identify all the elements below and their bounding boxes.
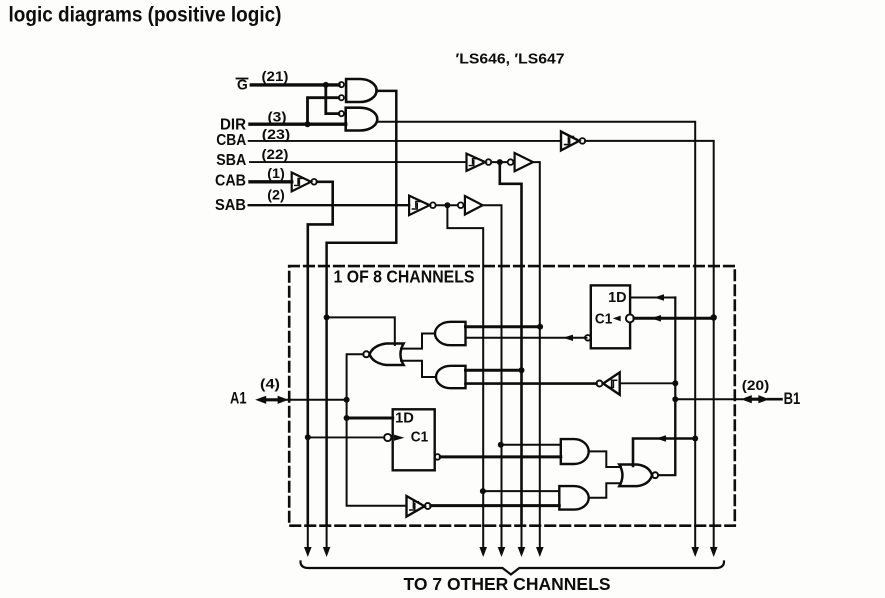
arrow CBA-bar down: [713, 526, 715, 548]
svg-text:CAB: CAB: [215, 172, 246, 189]
wire enable-A to A-driver NOR top: [327, 317, 395, 345]
wire U15 output jog to B NOR: [589, 483, 621, 498]
wire SBA line to schmitt inverter: [250, 161, 467, 163]
wire SBA buffered right then down: [533, 162, 540, 526]
schmitt inverter U4 on SBA: [467, 154, 486, 171]
wire SAB buffered right then down: [483, 205, 502, 526]
brace under arrows: [301, 562, 725, 575]
arrow SBA-bar down: [521, 526, 523, 548]
arrow SAB-bar down: [482, 526, 484, 548]
svg-text:(20): (20): [742, 378, 770, 393]
wire B NOR output up to B1 node: [658, 399, 675, 475]
wire SAB-bar to U15 input: [483, 490, 559, 492]
svg-text:logic diagrams (positive logic: logic diagrams (positive logic): [9, 3, 282, 26]
svg-text:(1): (1): [267, 166, 285, 181]
wire CBA line to schmitt inverter: [249, 140, 561, 142]
wire DIR input stub: [250, 122, 346, 125]
wire B node to U12 input: [620, 382, 676, 384]
svg-text:A1: A1: [230, 390, 247, 408]
wire enable-A from U1 output right then down: [327, 91, 397, 526]
wire B node vertical: [674, 298, 676, 475]
svg-text:(4): (4): [260, 377, 280, 392]
and-gate U10 mux-A upper (left facing): [435, 322, 466, 345]
wire SAB-bar jog down right down: [447, 205, 483, 526]
arrow enable-B down: [694, 526, 696, 548]
schmitt inverter U3 on CBA: [561, 132, 579, 151]
latch L2 (A-to-B storage) box: [393, 409, 435, 470]
node DIR junction dot: [305, 121, 311, 127]
and-gate U1 enable-A (inputs G-bar, DIR-bar): [346, 79, 376, 102]
wire CAB input stub: [250, 180, 292, 183]
node A1 junction dot: [344, 397, 350, 403]
wire A node vertical down to A-schmitt: [347, 400, 407, 506]
svg-text:1D: 1D: [395, 410, 414, 426]
and-gate U15 mux-B lower: [559, 486, 588, 510]
schmitt inverter U12 B-realtime (left facing): [603, 372, 620, 394]
arrow SAB down: [501, 526, 503, 548]
wire SBA to U10 input: [466, 325, 541, 328]
node enable-B dot: [692, 436, 698, 442]
svg-text:′LS646, ′LS647: ′LS646, ′LS647: [456, 51, 565, 68]
node B data dot: [672, 380, 678, 386]
schmitt inverter U6 on CAB: [292, 173, 311, 192]
and-gate U11 mux-A lower (left facing): [436, 366, 466, 388]
wire B-schmitt output to U11 input: [466, 382, 597, 385]
wire A-driver output to A1 node: [347, 354, 364, 400]
wire CBA-bar to latch L1 clock: [634, 317, 714, 320]
svg-text:(21): (21): [262, 69, 289, 84]
arrow SBA down: [539, 526, 541, 548]
wire latch1 output to U10 input with arrow: [466, 337, 587, 339]
svg-text:(3): (3): [268, 110, 287, 125]
schmitt inverter U13 A-realtime: [407, 496, 425, 517]
wire A node to latch L2 1D input: [347, 417, 393, 420]
nor-gate U9 A-driver (left facing): [370, 344, 404, 366]
wire DIR up to U1 lower inverted input: [308, 98, 339, 125]
wire enable-B into B NOR top with arrow: [633, 439, 695, 467]
wire CBA-bar to right then down: [585, 141, 714, 526]
svg-text:C1: C1: [411, 429, 428, 445]
svg-text:CBA: CBA: [216, 132, 246, 149]
wire SBA-bar jog down then right then down: [500, 162, 522, 526]
latch L1 output bubble: [585, 335, 591, 341]
wire 1D input from B node with arrow: [630, 297, 675, 299]
svg-text:DIR: DIR: [220, 117, 246, 134]
and-gate U2 enable-B (inputs G-bar inverted, DIR): [346, 108, 378, 131]
svg-text:TO 7 OTHER CHANNELS: TO 7 OTHER CHANNELS: [404, 574, 611, 594]
wire CAB-bar right, down, left, down into channel: [308, 182, 333, 526]
svg-text:B1: B1: [784, 390, 801, 408]
channel dashed box: [289, 266, 735, 526]
clock C1 input bubble latch L2: [384, 434, 391, 441]
node CAB-bar dot: [305, 434, 311, 440]
wire U14 output jog to B NOR: [589, 451, 621, 467]
svg-text:(22): (22): [262, 147, 289, 162]
wire U11 output to NOR input: [401, 361, 436, 377]
node CBA-bar dot: [711, 314, 717, 320]
wire U10 output to NOR input: [401, 334, 435, 349]
wire G down to U2 upper inverted input: [326, 85, 339, 114]
latch L2 output bubble: [435, 454, 441, 460]
node enable-A dot in channel: [324, 314, 330, 320]
svg-text:SAB: SAB: [215, 197, 246, 214]
arrow CAB-bar down: [307, 526, 309, 548]
wire A-realtime to B mux lower: [431, 504, 560, 507]
buffer U8 on SAB (input bubble): [458, 202, 464, 208]
wire latch L2 output to B mux: [440, 455, 561, 458]
schmitt inverter U7 on SAB: [409, 196, 430, 216]
arrow enable-A down: [326, 526, 328, 548]
svg-text:1 OF 8 CHANNELS: 1 OF 8 CHANNELS: [334, 267, 475, 287]
node G junction dot: [323, 82, 329, 88]
nor-gate U16 B-driver (right facing): [619, 465, 652, 487]
wire B1 line into channel: [675, 398, 742, 400]
wire A1 line into channel: [287, 399, 347, 401]
node SBA-bar junction dot: [497, 159, 503, 165]
wire SBA-bar to U11 input: [466, 369, 522, 372]
svg-text:SBA: SBA: [216, 152, 246, 169]
svg-text:1D: 1D: [608, 290, 626, 306]
node A data dot to latch L2: [344, 415, 350, 421]
node B1 line dot: [672, 396, 678, 402]
wire SAB line to schmitt inverter: [249, 204, 409, 206]
svg-text:(23): (23): [262, 127, 291, 142]
wire enable-B from U2 output to right edge then down: [377, 122, 695, 526]
wire SAB to U14 input: [501, 444, 561, 446]
buffer U5 on SBA (input bubble): [508, 159, 514, 165]
svg-text:C1: C1: [595, 312, 612, 328]
wire G input stub: [251, 83, 339, 86]
and-gate U14 mux-B upper: [561, 439, 589, 464]
latch L1 (B-to-A storage) box: [591, 285, 630, 348]
clock C1 input bubble latch L1: [626, 314, 634, 322]
wire CAB-bar to latch L2 clock: [308, 436, 384, 438]
node SAB-bar junction dot: [444, 202, 450, 208]
svg-text:(2): (2): [267, 188, 285, 203]
